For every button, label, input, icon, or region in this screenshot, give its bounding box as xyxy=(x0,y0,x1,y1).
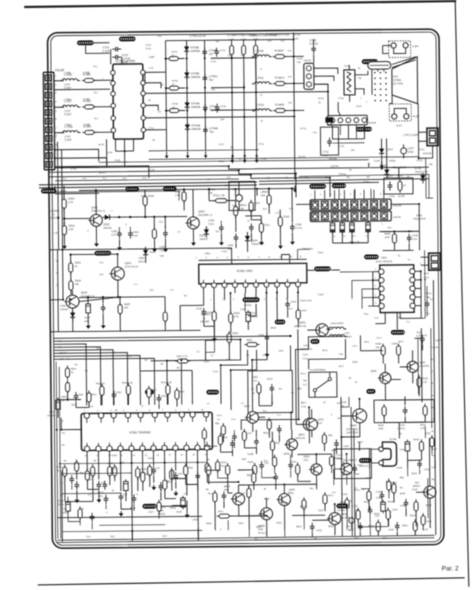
svg-text:5: 5 xyxy=(375,303,377,305)
transistor Q506 xyxy=(311,464,322,475)
IC700 pins xyxy=(111,70,116,75)
wire bus extra lines xyxy=(149,157,419,160)
wire bus step2 xyxy=(49,170,296,200)
svg-text:C519: C519 xyxy=(192,519,198,521)
svg-text:Vc: Vc xyxy=(56,285,60,287)
wire row 432 xyxy=(204,445,217,447)
svg-text:4T: 4T xyxy=(247,221,250,223)
wire left-bottom links xyxy=(64,477,66,502)
resistor R537 xyxy=(170,470,174,479)
capacitor C547 xyxy=(153,466,155,470)
capacitor C541 xyxy=(275,473,277,477)
capacitor C416 xyxy=(266,333,268,337)
wire bl extra xyxy=(62,472,132,475)
diode D304 xyxy=(245,236,250,241)
svg-text:R546: R546 xyxy=(248,461,254,464)
badge CN402 xyxy=(206,390,219,395)
wire T402 col xyxy=(372,272,374,306)
svg-text:CN703: CN703 xyxy=(331,165,339,168)
badge CN708 xyxy=(356,127,372,132)
capacitor C408b xyxy=(408,234,410,238)
resistor R426 xyxy=(229,314,233,323)
svg-text:C-4T: C-4T xyxy=(219,143,225,146)
svg-text:C3: C3 xyxy=(352,236,356,238)
svg-text:5: 5 xyxy=(136,410,138,412)
resistor R303 xyxy=(62,199,66,208)
svg-text:R52x: R52x xyxy=(263,433,269,435)
diode D704B xyxy=(185,102,190,107)
wire IC402 below xyxy=(203,293,205,305)
resistor R424 xyxy=(69,281,73,290)
svg-text:C409: C409 xyxy=(391,342,397,345)
svg-text:0.1m: 0.1m xyxy=(323,154,328,157)
svg-text:Ca4x: Ca4x xyxy=(318,293,324,296)
svg-text:Tan: Tan xyxy=(216,41,220,43)
svg-text:0.27uF: 0.27uF xyxy=(310,42,319,46)
svg-text:C434: C434 xyxy=(343,446,349,448)
svg-text:R445: R445 xyxy=(400,493,406,495)
svg-text:C71c: C71c xyxy=(259,143,265,146)
capacitor C542 xyxy=(311,523,313,527)
wire long drop C xyxy=(266,330,268,360)
capacitor C305 xyxy=(164,229,166,233)
svg-text:C705G: C705G xyxy=(209,74,218,78)
wire bottom verticals2 xyxy=(214,510,216,530)
svg-text:1uF: 1uF xyxy=(297,61,302,64)
svg-text:1W: 1W xyxy=(241,55,245,57)
svg-text:C714: C714 xyxy=(103,45,110,49)
svg-text:R532: R532 xyxy=(410,515,416,517)
badge CN709 xyxy=(332,183,346,188)
wire right-bottom rails xyxy=(341,454,344,536)
wire long rails mid-bottom xyxy=(351,407,352,536)
wire top hline1 xyxy=(99,160,369,163)
wire right rail x296 xyxy=(293,32,294,179)
svg-text:R534: R534 xyxy=(108,462,114,465)
resistor R512 xyxy=(166,385,170,394)
wire sec1 rights xyxy=(257,187,295,189)
svg-text:R453: R453 xyxy=(340,502,346,504)
resistor R548 xyxy=(302,500,306,509)
svg-text:CN702: CN702 xyxy=(304,59,312,62)
resistor R422 xyxy=(227,334,231,343)
svg-text:R303: R303 xyxy=(68,197,75,201)
resistor R532 xyxy=(74,462,78,471)
capacitor C312 xyxy=(250,223,252,227)
capacitor C706 xyxy=(204,104,206,108)
svg-text:R712: R712 xyxy=(417,159,423,162)
svg-text:R512 1.2k: R512 1.2k xyxy=(161,381,173,384)
svg-text:R-a: R-a xyxy=(100,262,104,264)
svg-text:Rq1: Rq1 xyxy=(223,437,228,439)
svg-text:Do.7: Do.7 xyxy=(339,366,345,368)
svg-text:GM41B: GM41B xyxy=(191,49,200,53)
svg-text:2: 2 xyxy=(55,84,57,87)
transistor Q401 xyxy=(316,324,329,337)
svg-text:b: b xyxy=(125,224,127,226)
svg-text:+9V: +9V xyxy=(89,406,94,408)
wire CN100 pin rows xyxy=(54,80,64,82)
capacitor C531 xyxy=(76,481,78,485)
svg-text:B-OUT: B-OUT xyxy=(99,171,107,174)
transistor Q504 xyxy=(261,508,273,520)
svg-text:Par. 2: Par. 2 xyxy=(442,565,459,572)
svg-text:C715: C715 xyxy=(339,146,345,148)
svg-text:C450: C450 xyxy=(376,498,382,500)
svg-text:6: 6 xyxy=(264,299,266,301)
sub box C419 xyxy=(248,370,293,412)
wire gun leads xyxy=(392,57,416,65)
svg-text:7: 7 xyxy=(55,127,57,130)
transformer T701 core xyxy=(344,70,355,95)
svg-text:1: 1 xyxy=(310,194,312,196)
svg-text:C-9: C-9 xyxy=(275,213,279,215)
svg-text:10: 10 xyxy=(201,409,204,411)
svg-text:Ch: Ch xyxy=(88,494,92,496)
svg-text:4.7k: 4.7k xyxy=(68,200,74,204)
svg-text:5: 5 xyxy=(350,194,352,196)
svg-text:C71x: C71x xyxy=(219,160,225,163)
svg-text:R432: R432 xyxy=(246,339,253,342)
wire q cluster links xyxy=(384,393,386,400)
svg-text:C-w: C-w xyxy=(374,318,378,320)
svg-text:C71b: C71b xyxy=(220,105,226,108)
svg-text:Ri: Ri xyxy=(112,490,115,492)
svg-text:D702B: D702B xyxy=(191,45,199,49)
svg-text:R-0808: R-0808 xyxy=(275,103,284,107)
svg-text:R538: R538 xyxy=(300,506,306,508)
capacitor C503 xyxy=(113,391,115,395)
capacitor C512 xyxy=(66,502,71,511)
inductor L700 row xyxy=(60,79,80,81)
svg-text:C527: C527 xyxy=(348,530,354,532)
resistor R521 xyxy=(322,435,326,444)
capacitor C561 xyxy=(261,461,263,465)
wire Q503 net xyxy=(227,475,229,493)
svg-text:C701: C701 xyxy=(294,33,300,36)
svg-text:2.2uF: 2.2uF xyxy=(64,86,71,90)
wire ladder col2 xyxy=(186,40,189,140)
svg-text:R435: R435 xyxy=(331,450,337,452)
wire bl links xyxy=(68,521,80,523)
resistor R552 xyxy=(108,467,112,476)
wire CN706 feeds xyxy=(314,190,316,199)
svg-text:D410: D410 xyxy=(357,442,363,444)
svg-text:8: 8 xyxy=(55,135,57,138)
wire center drops xyxy=(289,345,291,370)
connector CN706 xyxy=(310,199,391,210)
wire amp1 right drop xyxy=(256,189,258,196)
svg-text:4: 4 xyxy=(340,194,342,196)
badge section3 xyxy=(163,186,177,191)
svg-text:Cf: Cf xyxy=(141,406,144,408)
svg-text:5: 5 xyxy=(238,257,240,259)
wire right drops to IC501 xyxy=(241,419,299,430)
resistor R549 xyxy=(323,495,327,504)
resistor R519 xyxy=(100,386,104,395)
svg-text:R-0805: R-0805 xyxy=(275,49,284,53)
resistor R439 xyxy=(392,484,396,493)
wire IC700 bottom drops xyxy=(105,139,107,166)
resistor R535 xyxy=(136,468,140,477)
wire Q401 base xyxy=(307,329,315,331)
svg-text:L700D: L700D xyxy=(64,124,71,127)
wire amp1 input xyxy=(63,209,65,225)
svg-text:L402 3.3mH: L402 3.3mH xyxy=(330,322,343,325)
svg-text:R526: R526 xyxy=(328,526,334,528)
svg-text:R311 1.2k: R311 1.2k xyxy=(213,193,225,197)
svg-text:1: 1 xyxy=(360,98,362,100)
svg-text:CN708: CN708 xyxy=(368,122,376,125)
resistor R513 xyxy=(87,393,91,402)
svg-text:Cj: Cj xyxy=(184,493,187,495)
svg-text:B3: B3 xyxy=(129,356,133,358)
capacitor C704 xyxy=(204,48,206,52)
svg-text:Q302: Q302 xyxy=(198,209,205,213)
wire T402 left wires xyxy=(340,271,373,273)
svg-text:2: 2 xyxy=(366,102,368,104)
svg-text:0.47m: 0.47m xyxy=(295,227,302,230)
svg-text:KSC945C: KSC945C xyxy=(419,366,430,368)
svg-text:R447: R447 xyxy=(426,505,432,507)
capacitor C504 xyxy=(158,394,160,398)
svg-text:R439: R439 xyxy=(354,474,360,476)
wire divider right extra xyxy=(259,179,429,182)
svg-text:C442: C442 xyxy=(424,469,430,471)
diode D707 xyxy=(379,149,384,154)
svg-text:RGP: RGP xyxy=(353,362,358,364)
svg-text:2.2uF: 2.2uF xyxy=(64,110,71,113)
capacitor C308 xyxy=(291,223,293,227)
svg-text:D704B: D704B xyxy=(191,71,199,75)
svg-text:B+: B+ xyxy=(153,140,157,142)
svg-text:x5: x5 xyxy=(323,402,326,404)
svg-text:L701B: L701B xyxy=(256,49,264,53)
svg-text:C415: C415 xyxy=(240,308,246,311)
resistor R708G xyxy=(242,45,246,54)
capacitor C513 xyxy=(91,513,93,517)
svg-text:x3: x3 xyxy=(260,121,263,123)
svg-text:B+: B+ xyxy=(231,146,235,149)
svg-text:Rv2: Rv2 xyxy=(354,537,359,540)
resistor R507 xyxy=(178,359,188,363)
capacitor C41O xyxy=(349,518,355,524)
svg-text:(MPSA-42): (MPSA-42) xyxy=(294,325,306,328)
svg-text:R520: R520 xyxy=(206,523,212,525)
capacitor C582 xyxy=(133,494,135,498)
svg-text:Ho: Ho xyxy=(247,355,251,357)
svg-text:7P: 7P xyxy=(349,169,352,172)
svg-text:uPA07: uPA07 xyxy=(61,396,68,399)
resistor R456 xyxy=(386,510,390,519)
svg-text:7: 7 xyxy=(162,410,164,412)
svg-text:4: 4 xyxy=(55,101,57,104)
resistor R441 xyxy=(367,491,371,500)
svg-text:SDA: SDA xyxy=(279,350,284,353)
wire fill right xyxy=(421,396,423,402)
svg-text:R-2: R-2 xyxy=(94,92,98,94)
op-amp T402 IC xyxy=(380,265,414,313)
svg-text:Tp: Tp xyxy=(398,255,401,257)
wire fill bottom xyxy=(248,530,250,537)
capacitor C714 xyxy=(112,48,116,50)
transistor Q502 xyxy=(306,418,318,430)
svg-text:TRANSTOP: TRANSTOP xyxy=(413,218,426,221)
svg-text:R-1: R-1 xyxy=(94,66,98,68)
svg-text:Ra21: Ra21 xyxy=(150,251,156,254)
svg-text:1: 1 xyxy=(210,299,212,301)
svg-text:2.2uF: 2.2uF xyxy=(64,112,71,116)
svg-text:C4.1: C4.1 xyxy=(352,346,358,348)
svg-text:Gm: Gm xyxy=(288,102,292,104)
svg-text:x2: x2 xyxy=(260,95,263,97)
svg-text:c: c xyxy=(111,210,113,212)
svg-text:47k: 47k xyxy=(268,40,273,43)
badge CN703 xyxy=(309,184,326,189)
resistor R522 xyxy=(221,426,225,435)
svg-text:R-b: R-b xyxy=(100,274,104,276)
wire rb rails xyxy=(348,397,350,407)
wire ladder rail xyxy=(165,41,168,141)
page right edge xyxy=(455,1,469,587)
capacitor C534 xyxy=(160,482,162,486)
resistor R574 xyxy=(207,466,211,475)
capacitor C520 xyxy=(278,425,280,429)
svg-text:R522: R522 xyxy=(256,527,262,529)
wire right col drops xyxy=(418,230,420,250)
svg-text:R540: R540 xyxy=(264,499,270,501)
resistor R455 xyxy=(356,510,360,519)
svg-text:2: 2 xyxy=(320,194,322,196)
svg-text:SW: SW xyxy=(303,380,308,382)
svg-text:D304: D304 xyxy=(251,239,258,242)
svg-text:GM41B: GM41B xyxy=(191,75,200,79)
wire sec2 out xyxy=(118,296,165,298)
svg-text:0.1m: 0.1m xyxy=(412,238,417,241)
svg-text:B1: B1 xyxy=(347,177,351,179)
svg-text:Cd: Cd xyxy=(251,389,255,391)
wire top right rails xyxy=(425,158,427,198)
resistor R306 xyxy=(143,196,147,205)
svg-text:1uF: 1uF xyxy=(351,150,356,152)
svg-text:Ra.2: Ra.2 xyxy=(221,465,227,468)
svg-text:6: 6 xyxy=(360,194,362,196)
svg-text:R519 1k: R519 1k xyxy=(96,382,106,385)
svg-text:1uF: 1uF xyxy=(209,52,214,56)
svg-text:5: 5 xyxy=(55,110,57,113)
svg-text:R507 4.7k: R507 4.7k xyxy=(177,355,189,358)
svg-text:2.2uF: 2.2uF xyxy=(64,135,71,138)
wire junction dots xyxy=(165,58,167,60)
capacitor C532 xyxy=(104,481,106,485)
svg-text:R-0: R-0 xyxy=(159,222,163,224)
resistor R562 xyxy=(272,457,276,466)
CRT base dots xyxy=(374,72,376,74)
resistor R423a xyxy=(69,263,73,272)
resistor R554 xyxy=(163,480,167,489)
svg-text:D707: D707 xyxy=(387,147,394,151)
transistor Q303 xyxy=(111,267,124,280)
wire IC402 area links xyxy=(204,325,214,327)
svg-text:C537: C537 xyxy=(318,510,324,512)
svg-text:5V: 5V xyxy=(64,461,67,463)
wire q-pocket2 xyxy=(186,483,198,485)
svg-text:R5x: R5x xyxy=(328,435,333,437)
svg-text:B4: B4 xyxy=(145,360,149,362)
svg-text:GM41B: GM41B xyxy=(199,238,208,241)
resistor R700 row xyxy=(84,78,93,82)
svg-text:4.7k: 4.7k xyxy=(234,315,240,318)
svg-text:C707: C707 xyxy=(408,146,415,150)
capacitor C570 xyxy=(231,440,233,444)
wire border mid xyxy=(421,256,429,258)
svg-text:C502: C502 xyxy=(78,394,84,396)
svg-text:C436: C436 xyxy=(399,449,405,451)
wire ladder right joins xyxy=(256,56,258,59)
svg-text:BF819: BF819 xyxy=(413,485,421,488)
svg-text:Rz2: Rz2 xyxy=(110,535,115,538)
svg-text:KSC: KSC xyxy=(318,423,323,425)
svg-text:0.1m: 0.1m xyxy=(211,60,216,63)
badge below T402 xyxy=(391,330,405,335)
box CN704 xyxy=(320,127,338,155)
wire IC501 bottom rails xyxy=(61,472,64,542)
svg-text:9V: 9V xyxy=(94,460,97,462)
wire D707 net xyxy=(381,139,383,148)
resistor R436 xyxy=(396,346,400,355)
svg-text:C539: C539 xyxy=(282,503,288,505)
svg-text:L701D: L701D xyxy=(256,103,264,107)
capacitor C583 xyxy=(419,460,421,464)
inductor L402 xyxy=(326,327,346,329)
svg-text:2.2uF: 2.2uF xyxy=(64,83,71,86)
capacitor C421 bank xyxy=(330,223,335,232)
svg-text:Q502: Q502 xyxy=(318,418,325,421)
svg-text:Vo: Vo xyxy=(263,355,266,357)
connector CN100 xyxy=(43,72,54,170)
svg-text:FCSC-G: FCSC-G xyxy=(258,533,267,535)
svg-text:In: In xyxy=(63,223,66,225)
svg-text:R-f: R-f xyxy=(184,295,187,297)
badge sec2 xyxy=(95,251,112,256)
svg-text:Q303: Q303 xyxy=(125,261,132,265)
capacitor C715 xyxy=(112,56,116,58)
badge D409 xyxy=(359,458,372,463)
svg-text:4T8: 4T8 xyxy=(160,255,165,258)
badge T402 xyxy=(364,254,379,259)
svg-text:25V: 25V xyxy=(387,228,392,230)
svg-text:GM41B: GM41B xyxy=(191,127,200,131)
svg-text:10k: 10k xyxy=(375,346,380,349)
svg-text:Q410: Q410 xyxy=(419,361,426,364)
svg-text:B2: B2 xyxy=(367,177,371,179)
svg-text:x1: x1 xyxy=(260,69,263,71)
svg-text:22-TC01: 22-TC01 xyxy=(393,81,404,85)
resistor R571 xyxy=(242,431,246,440)
svg-text:17: 17 xyxy=(169,455,172,457)
transistor Q304 xyxy=(66,295,79,308)
capacitor C702 xyxy=(313,45,315,49)
svg-text:Ca6: Ca6 xyxy=(123,494,128,496)
capacitor C417 xyxy=(246,312,251,321)
svg-text:0.1m: 0.1m xyxy=(356,105,361,108)
svg-text:FBp: FBp xyxy=(400,477,405,479)
svg-text:R534: R534 xyxy=(374,514,380,516)
svg-text:18: 18 xyxy=(157,455,160,457)
svg-text:Tan: Tan xyxy=(209,78,214,82)
svg-text:15: 15 xyxy=(193,454,196,456)
svg-text:C521: C521 xyxy=(238,523,244,525)
